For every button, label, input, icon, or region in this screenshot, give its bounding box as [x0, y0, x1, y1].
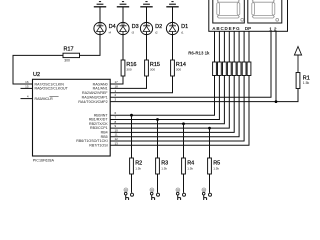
wire seg DP col: [248, 31, 250, 62]
button 2: [150, 188, 160, 200]
junction RB3/R5: [208, 127, 211, 130]
svg-text:RA3/AN3/CMP1: RA3/AN3/CMP1: [82, 96, 108, 100]
wire RA4 to R1 pull-up rail: [110, 89, 298, 102]
button 4: [202, 188, 212, 200]
resistor R17: [63, 53, 80, 57]
svg-text:1.5k: 1.5k: [213, 166, 219, 170]
LED D4: [94, 22, 106, 34]
ground symbol D1: [166, 2, 178, 7]
wire RB7 to seg DP: [110, 76, 249, 146]
svg-text:t3: t3: [132, 31, 135, 35]
resistor pack R6-R13 bodies: [213, 62, 251, 76]
pin 15 stub: [21, 87, 33, 89]
wire R2 to button 1: [131, 174, 133, 193]
svg-text:RA5/MCLR: RA5/MCLR: [35, 97, 54, 101]
wire gnd to D4: [99, 7, 101, 23]
wire RB0 to seg A: [110, 76, 214, 116]
wire RB3 to seg D: [110, 76, 229, 129]
svg-text:300: 300: [176, 68, 181, 72]
left pin names: [35, 82, 69, 101]
wire RB3 to R5: [209, 128, 211, 158]
wire R14 to pin1: [110, 76, 172, 93]
wire R4 to button 3: [183, 174, 185, 193]
wire D3 to R16: [122, 35, 124, 61]
wire RB4 to seg E: [110, 76, 234, 133]
wire seg B col: [218, 31, 220, 62]
svg-text:RA6/OSC2/CLKOUT: RA6/OSC2/CLKOUT: [35, 87, 69, 91]
resistor R7: [218, 62, 222, 76]
svg-text:RA4/T0CKI/CMP2: RA4/T0CKI/CMP2: [78, 100, 107, 104]
ground symbol D2: [140, 2, 152, 7]
wire RA3 to digit1 select: [110, 31, 271, 97]
wire seg F col: [238, 31, 240, 62]
wire seg G col: [243, 31, 245, 62]
wire D4 to R17: [80, 35, 101, 56]
junction RB1/R3: [156, 118, 159, 121]
right pin names: [76, 82, 108, 147]
svg-text:t2: t2: [155, 31, 158, 35]
display digit 1 box: [213, 0, 245, 23]
svg-text:RA0/AN0: RA0/AN0: [93, 82, 108, 86]
wire seg A col: [214, 31, 216, 62]
wire gnd to D1: [172, 7, 174, 23]
svg-text:D2: D2: [155, 24, 162, 30]
pin 16 stub: [21, 83, 33, 85]
display digit 2 box: [248, 0, 282, 23]
svg-text:18: 18: [115, 84, 119, 88]
wire seg D col: [228, 31, 230, 62]
svg-text:17: 17: [115, 80, 119, 84]
wire gnd to D3: [122, 7, 124, 23]
svg-text:R6-R13 1k: R6-R13 1k: [188, 50, 210, 55]
wire R3 to button 2: [157, 174, 159, 193]
display digit 1: [217, 0, 244, 21]
button 3: [176, 188, 186, 200]
display outer box: [209, 0, 288, 31]
resistor R6: [213, 62, 217, 76]
svg-text:1.5k: 1.5k: [161, 166, 167, 170]
wire RB2 to seg C: [110, 76, 224, 124]
svg-text:RB7/T1OSI: RB7/T1OSI: [89, 143, 107, 147]
mcu U2 box: [33, 79, 111, 156]
wire RB2 to R4: [183, 124, 185, 158]
svg-text:15: 15: [25, 84, 29, 88]
svg-text:U2: U2: [33, 72, 40, 78]
wire R16 to pin17: [110, 76, 123, 84]
wire R5 to button 4: [209, 174, 211, 193]
wire RB1 to R3: [157, 120, 159, 159]
resistor R14: [171, 60, 175, 76]
resistor R5: [208, 158, 212, 174]
wire R17 to pin16: [13, 55, 63, 84]
vcc arrow above R1: [294, 47, 301, 73]
wire seg E col: [233, 31, 235, 62]
resistor R16: [121, 60, 125, 76]
resistor R13: [247, 62, 251, 76]
svg-text:DP: DP: [245, 26, 251, 31]
right pin numbers: [115, 80, 119, 145]
svg-text:16: 16: [25, 80, 29, 84]
resistor R15: [145, 60, 149, 76]
svg-text:D3: D3: [132, 24, 139, 30]
svg-text:RA7/OSC1/CLKIN: RA7/OSC1/CLKIN: [35, 82, 65, 86]
resistor R3: [156, 158, 160, 174]
wire seg C col: [223, 31, 225, 62]
svg-text:300: 300: [126, 68, 131, 72]
svg-text:PIC16F628A: PIC16F628A: [33, 159, 55, 163]
button 1: [124, 188, 134, 200]
wire D1 to R14: [172, 35, 174, 61]
resistor R10: [232, 62, 236, 76]
LED D3: [117, 22, 129, 34]
svg-text:300: 300: [64, 59, 70, 63]
wire digit2 select: [275, 31, 277, 101]
resistor R2: [130, 158, 134, 174]
wire RB1 to seg B: [110, 76, 219, 120]
LED D2: [140, 22, 152, 34]
wire gnd to D2: [146, 7, 148, 23]
svg-text:D1: D1: [181, 24, 188, 30]
svg-text:t4: t4: [109, 31, 112, 35]
resistor R12: [242, 62, 246, 76]
resistor R1: [296, 73, 300, 89]
svg-text:RA1/AN1: RA1/AN1: [93, 87, 108, 91]
svg-text:300: 300: [150, 68, 155, 72]
resistor R8: [223, 62, 227, 76]
wires resistor pack to RB pins (nested corners): [110, 76, 249, 146]
svg-text:D4: D4: [109, 24, 116, 30]
wire R15 to pin18: [110, 76, 146, 88]
resistor R11: [237, 62, 241, 76]
junction digit2/R1 rail: [275, 100, 278, 103]
resistor R4: [182, 158, 186, 174]
wire RB5 to seg F: [110, 76, 239, 137]
svg-text:13: 13: [115, 141, 119, 145]
resistor R9: [227, 62, 231, 76]
svg-text:1.5k: 1.5k: [303, 81, 310, 85]
wire RB6 to seg G: [110, 76, 244, 142]
svg-text:ABCDEFG: ABCDEFG: [212, 26, 240, 31]
ground symbol D3: [117, 2, 129, 7]
display digit 2: [252, 0, 279, 21]
junction RB0/R2: [130, 114, 133, 117]
segment pin wires from display to resistor pack: [215, 31, 250, 62]
LED D1: [166, 22, 178, 34]
wire RB0 to R2: [131, 115, 133, 158]
wire D2 to R15: [146, 35, 148, 61]
svg-text:1.5k: 1.5k: [187, 166, 193, 170]
pin 4 stub: [21, 98, 33, 100]
svg-text:t1: t1: [181, 31, 184, 35]
svg-text:R17: R17: [64, 47, 74, 53]
svg-text:RA2/AN2/VREF: RA2/AN2/VREF: [82, 91, 108, 95]
junction RB2/R4: [182, 122, 185, 125]
MCLR overline: [49, 96, 58, 98]
ground symbol D4: [94, 2, 106, 7]
svg-text:1.5k: 1.5k: [135, 166, 141, 170]
